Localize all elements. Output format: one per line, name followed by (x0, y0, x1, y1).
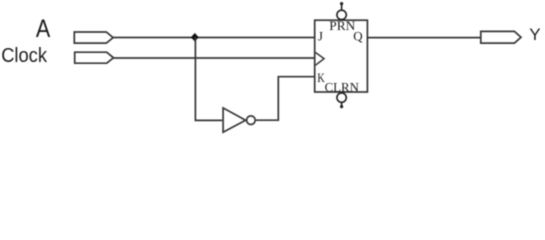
PRN bubble with stub (337, 2, 346, 20)
wire junction down to inverter input (195, 37, 222, 120)
flip-flop U1 body (315, 20, 368, 92)
svg-text:Clock: Clock (1, 45, 48, 67)
input pin A (74, 32, 113, 43)
wire A to J input (113, 37, 315, 39)
svg-text:Q: Q (353, 28, 363, 43)
input pin Clock (75, 52, 114, 63)
flip-flop clock edge triangle (316, 53, 325, 66)
wire Clock to CLK input (114, 57, 316, 59)
svg-text:J: J (318, 29, 323, 44)
inverter NOT gate (223, 108, 255, 132)
node junction on A wire (191, 33, 198, 41)
wire inverter output to K input (255, 77, 315, 121)
wire Q output to Y pin (367, 37, 480, 39)
svg-text:Y: Y (529, 25, 540, 44)
svg-text:A: A (36, 15, 51, 43)
CLRN bubble with stub (337, 93, 346, 108)
output pin Y (481, 31, 521, 43)
